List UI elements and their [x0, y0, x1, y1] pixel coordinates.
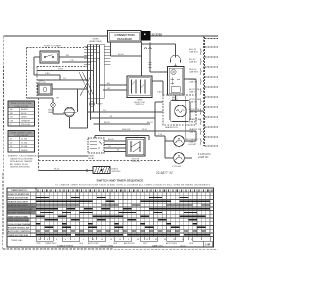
connection diagram title box [108, 31, 142, 43]
svg-text:OR: OR [10, 120, 14, 122]
svg-text:BLACK: BLACK [21, 108, 28, 111]
sequence chart grid verticals [36, 189, 210, 236]
sequence chart bottom cycle ticks [36, 237, 210, 242]
svg-text:# CATALOG: # CATALOG [198, 153, 211, 156]
svg-text:W: W [110, 116, 112, 118]
svg-text:0: 0 [128, 239, 129, 241]
svg-text:EXAMPLE: Y-BU-16 MEANS A 16: EXAMPLE: Y-BU-16 MEANS A 16 [8, 155, 40, 158]
svg-text:TO CHANGE TIMER POSITION PUSH: TO CHANGE TIMER POSITION PUSH KNOB IN AN… [55, 184, 211, 187]
wire from timer motor [52, 89, 88, 112]
svg-text:}: } [200, 49, 202, 55]
wire color code table 1 [8, 101, 35, 126]
timer cam contacts (diagonals) [79, 72, 94, 96]
svg-text:WITH A BLUE TRACER: WITH A BLUE TRACER [10, 160, 33, 163]
sequence chart header tick marks [38, 190, 213, 192]
wire from connection box down [111, 42, 142, 76]
notes text block [8, 155, 40, 169]
svg-text:BU-W: BU-W [118, 54, 124, 56]
svg-text:10: 10 [38, 239, 40, 241]
terminal wire labels column [189, 49, 202, 144]
svg-text:HI-LIMIT THERMOSTAT: HI-LIMIT THERMOSTAT [8, 212, 32, 215]
timer terminal comb ticks [84, 46, 100, 65]
svg-text:BU: BU [107, 83, 110, 85]
svg-text:CYCLING THERMOSTAT: CYCLING THERMOSTAT [8, 208, 33, 211]
sequence chart minute scale [38, 239, 192, 241]
svg-text:10: 10 [182, 239, 184, 241]
sequence chart bottom cycle labels [37, 242, 194, 247]
terminal strip cells (right edge) [205, 37, 219, 146]
svg-text:SWITCH AND TIMER SEQUENCE: SWITCH AND TIMER SEQUENCE [97, 178, 144, 182]
junction dots [87, 56, 101, 113]
harness bracket line [185, 96, 187, 140]
svg-text:Y-BU: Y-BU [157, 92, 162, 94]
wires between lower boxes [104, 141, 126, 152]
sheet top border [4, 35, 219, 37]
svg-text:}: } [200, 99, 202, 105]
wire long run GY [88, 111, 164, 113]
svg-text:TUMBLE PRESS: TUMBLE PRESS [57, 245, 74, 247]
svg-text:Y-R: Y-R [70, 60, 74, 62]
ground strap G1 [93, 167, 121, 174]
svg-text:OFF: OFF [37, 243, 42, 245]
wire bus rung 3 [37, 70, 94, 72]
svg-text:CAB BU: CAB BU [189, 61, 197, 64]
svg-text:W-14: W-14 [54, 169, 60, 171]
svg-text:6: 6 [56, 239, 57, 241]
svg-text:COOL DOWN: COOL DOWN [100, 245, 113, 247]
sheet bottom border [3, 248, 218, 250]
svg-text:10: 10 [119, 239, 121, 241]
sequence chart grid horizontals [7, 192, 214, 237]
svg-text:ORANGE: ORANGE [21, 119, 31, 122]
svg-text:DIAGRAM: DIAGRAM [117, 37, 132, 41]
svg-text:HEATER W: HEATER W [189, 128, 200, 131]
heater assembly dashed box [163, 95, 196, 125]
wire long run W-BU-W [100, 131, 197, 136]
sequence chart column numbers [38, 190, 213, 192]
svg-text:SWITCH: SWITCH [136, 104, 144, 106]
heater housing [170, 101, 190, 122]
svg-text:BLUE: BLUE [21, 113, 27, 115]
buzzer dome B1 [171, 55, 181, 67]
thermostat T2 [165, 153, 192, 164]
svg-text:}: } [200, 89, 202, 95]
harness pin ticks [148, 62, 151, 68]
svg-text:Y-BU: Y-BU [45, 73, 50, 75]
terminal braces [200, 49, 202, 145]
svg-text:40: 40 [155, 239, 157, 241]
svg-text:40: 40 [92, 239, 94, 241]
part number black tag [141, 31, 151, 41]
cabinet dashed boundary [39, 160, 161, 162]
svg-text:CAB RED: CAB RED [189, 71, 199, 74]
svg-text:COOL: COOL [180, 245, 187, 247]
svg-text:TEMP SWITCH MED: TEMP SWITCH MED [8, 216, 29, 218]
svg-text:BK-14: BK-14 [147, 122, 153, 124]
svg-text:LAMP NO.: LAMP NO. [198, 156, 209, 159]
svg-text:HEATER 2800 WATT: HEATER 2800 WATT [8, 204, 29, 207]
svg-text:22-6877 “A”: 22-6877 “A” [156, 171, 173, 175]
svg-text:DRIVE MOTOR RUN: DRIVE MOTOR RUN [8, 198, 29, 200]
svg-text:OFF: OFF [79, 243, 84, 245]
svg-text:CAB BLK: CAB BLK [189, 51, 198, 54]
svg-text:0: 0 [83, 239, 84, 241]
svg-text:PUSH TO START: PUSH TO START [44, 45, 62, 48]
svg-text:AUTO REG: AUTO REG [166, 242, 177, 245]
wire door block drop [176, 79, 197, 110]
svg-text:TIMER MOTOR RUN: TIMER MOTOR RUN [8, 235, 29, 237]
motor switch S4 [126, 138, 145, 163]
schematic right dashed boundary [203, 36, 205, 146]
svg-text:TEMP SWITCH LOW: TEMP SWITCH LOW [8, 220, 30, 222]
wire long run W [91, 117, 156, 119]
wire left of start relay [39, 155, 89, 157]
svg-text:}: } [200, 59, 202, 65]
svg-text:GROUND: GROUND [112, 171, 121, 173]
terminal block TB1 [88, 138, 104, 160]
svg-text:W: W [117, 150, 119, 152]
svg-text:18 GA: 18 GA [21, 145, 28, 148]
wire selector feeds [100, 81, 164, 95]
sheet left border [3, 36, 4, 249]
svg-text:1 HR: 1 HR [205, 242, 211, 246]
svg-text:YELLOW: YELLOW [21, 124, 30, 126]
svg-text:RELAY: RELAY [88, 157, 95, 160]
svg-text:8: 8 [47, 239, 48, 241]
svg-text:ALL WIRES 18 GA: ALL WIRES 18 GA [10, 163, 28, 166]
svg-text:W: W [10, 150, 12, 152]
svg-text:CODE GAUGE: CODE GAUGE [14, 134, 29, 137]
svg-text:20: 20 [110, 239, 112, 241]
svg-text:W-BU-W: W-BU-W [122, 129, 130, 131]
wire bus rung [62, 61, 91, 63]
svg-text:BU: BU [10, 113, 13, 115]
wire start sw to bus [59, 56, 88, 58]
svg-text:SWITCH: SWITCH [132, 161, 140, 163]
wire long run BU-W [94, 123, 151, 125]
svg-text:CODE COLOR: CODE COLOR [14, 106, 28, 108]
svg-text:BU-W: BU-W [108, 139, 113, 141]
svg-text:}: } [200, 109, 202, 115]
sequence chart on-segments [36, 197, 210, 236]
svg-text:}: } [200, 69, 202, 75]
svg-text:16 GA: 16 GA [21, 141, 28, 144]
timer motor M1 [38, 80, 52, 95]
svg-text:CAB Y: CAB Y [189, 91, 196, 94]
svg-text:GAUGE YELLOW WIRE: GAUGE YELLOW WIRE [10, 157, 33, 160]
svg-text:AUTO DRY CONTROL: AUTO DRY CONTROL [8, 230, 31, 233]
svg-text:CYCLING: CYCLING [172, 166, 181, 168]
svg-text:30: 30 [101, 239, 103, 241]
timer switch bus vertical wires [88, 44, 100, 131]
wire color code table 2 [8, 131, 35, 153]
temperature selector switch S2 [127, 76, 152, 106]
svg-text:60: 60 [137, 239, 139, 241]
wire top right run [142, 44, 176, 58]
svg-text:COOL DOWN THERMO: COOL DOWN THERMO [8, 224, 32, 226]
svg-text:(REAR VIEW): (REAR VIEW) [89, 40, 102, 43]
timer block outline [88, 44, 105, 98]
wire to start switch [34, 57, 60, 80]
svg-text:GRAY: GRAY [21, 116, 27, 119]
svg-text:HEATER 5600 WATT: HEATER 5600 WATT [8, 200, 29, 203]
svg-text:BUZZER SIGNAL SW: BUZZER SIGNAL SW [8, 226, 30, 229]
harness drop wire [144, 43, 168, 73]
svg-text:50: 50 [146, 239, 148, 241]
svg-text:WHITE: WHITE [21, 150, 28, 152]
svg-text:14 GA: 14 GA [21, 138, 28, 141]
wire ground run [39, 169, 94, 172]
svg-text:HI-LIMIT: HI-LIMIT [189, 144, 198, 146]
svg-text:DAMP DRY: DAMP DRY [152, 244, 164, 247]
svg-text:OFF: OFF [113, 243, 118, 245]
svg-text:20: 20 [173, 239, 175, 241]
sequence chart row label shading [8, 204, 36, 222]
wire thermostat drops [155, 136, 196, 158]
wire heater left [155, 102, 204, 136]
svg-text:HEATER BOX: HEATER BOX [165, 126, 178, 129]
svg-text:ELEM: ELEM [172, 99, 178, 101]
svg-text:BU: BU [66, 55, 69, 57]
console dashed boundary [27, 48, 89, 99]
svg-text:OR: OR [107, 88, 111, 90]
wire motor bottom run [70, 117, 88, 128]
sequence chart row labels [8, 190, 33, 237]
svg-text:GY-R: GY-R [58, 69, 64, 71]
svg-text:4: 4 [65, 239, 66, 241]
svg-text:DRY: DRY [143, 243, 148, 245]
svg-text:OFF: OFF [189, 243, 194, 245]
svg-text:}: } [200, 139, 202, 145]
indicator lamp L2 [90, 102, 104, 107]
thermostat T1 [165, 136, 196, 147]
svg-text:BU-W: BU-W [104, 122, 110, 124]
heater element H1 [172, 96, 186, 117]
svg-text:LAMP: LAMP [97, 103, 103, 106]
cabinet left dashed drop [38, 98, 40, 171]
wire lamp drop [27, 98, 65, 114]
drive motor M2 [63, 107, 77, 117]
svg-text:AIR FLUFF: AIR FLUFF [124, 242, 135, 245]
wire timer feed [37, 79, 88, 81]
svg-text:2: 2 [74, 239, 75, 241]
svg-text:TIMED DRY: TIMED DRY [45, 243, 57, 245]
svg-text:UNLESS SPECIFIED: UNLESS SPECIFIED [10, 167, 30, 169]
svg-text:WIRE GAUGE CODE: WIRE GAUGE CODE [10, 131, 32, 134]
svg-text:0: 0 [191, 239, 192, 241]
svg-text:AUTO DRY: AUTO DRY [88, 242, 99, 245]
push-to-start switch S1 [40, 51, 59, 63]
svg-text:}: } [200, 79, 202, 85]
svg-text:PUSH TO START SW: PUSH TO START SW [8, 193, 30, 196]
wire top of lower boxes [95, 136, 149, 141]
svg-text:WIRE COLOR CODE: WIRE COLOR CODE [10, 103, 32, 105]
svg-text:30: 30 [164, 239, 166, 241]
svg-text:TIMER DIAL: TIMER DIAL [11, 239, 23, 242]
sequence chart label column dividers [31, 188, 37, 237]
svg-text:}: } [200, 129, 202, 135]
sequence chart outer frame [7, 188, 214, 247]
svg-text:TIMER SWITCH: TIMER SWITCH [11, 190, 27, 192]
door switch box S3 [168, 67, 185, 96]
svg-text:}: } [200, 119, 202, 125]
timer right stubs [104, 46, 111, 65]
svg-text:22-3708: 22-3708 [152, 32, 163, 36]
bottom right legend box [204, 241, 213, 247]
drum lamp L1 [48, 103, 55, 114]
